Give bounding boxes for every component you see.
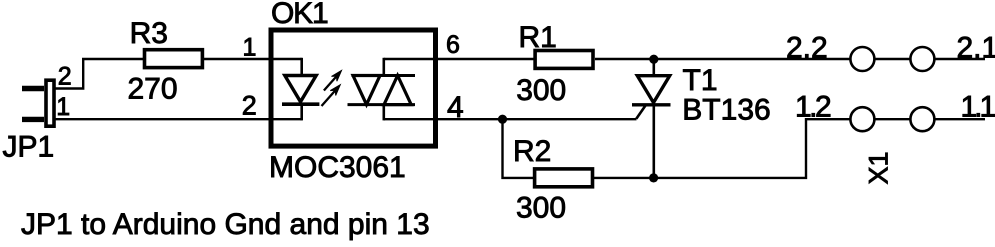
resistor R1 xyxy=(535,51,593,69)
wire OK1 pin4 to T1 gate xyxy=(384,118,637,120)
svg-text:1: 1 xyxy=(56,93,70,121)
svg-text:2.1: 2.1 xyxy=(957,31,995,64)
resistor R3 xyxy=(145,50,203,68)
triac T1 xyxy=(632,59,671,178)
wire between X1 pads 1.2 and 1.1 xyxy=(876,118,911,120)
junction dot T1 / R2 net xyxy=(649,173,658,182)
svg-text:270: 270 xyxy=(128,73,178,106)
svg-text:T1: T1 xyxy=(683,64,718,97)
photo-triac of OK1 xyxy=(348,58,416,121)
svg-text:JP1 to Arduino Gnd and pin 13: JP1 to Arduino Gnd and pin 13 xyxy=(21,208,430,241)
svg-text:R1: R1 xyxy=(519,21,557,54)
svg-text:BT136: BT136 xyxy=(682,94,770,127)
svg-text:OK1: OK1 xyxy=(271,0,328,30)
light emission arrows xyxy=(322,71,342,107)
wire junction to R2 xyxy=(503,119,537,178)
svg-text:1.1: 1.1 xyxy=(961,91,995,124)
optocoupler OK1 box xyxy=(271,30,436,146)
wire R3 to OK1 pin1 xyxy=(203,58,302,60)
junction dot T1 anode / top net xyxy=(649,55,658,64)
resistor R2 xyxy=(535,169,593,187)
svg-text:4: 4 xyxy=(447,91,464,124)
svg-text:JP1: JP1 xyxy=(3,130,55,163)
wire R1 to X1 pad 2.2 xyxy=(595,58,850,60)
wire right of X1 pad 1.1 xyxy=(935,118,985,120)
X1 pad 2.1 xyxy=(910,47,934,71)
optocoupler OK1 internals: LED xyxy=(282,58,319,121)
svg-text:1.2: 1.2 xyxy=(795,91,831,124)
wire JP1 pin1 to OK1 pin2 xyxy=(55,118,302,120)
svg-text:MOC3061: MOC3061 xyxy=(269,151,406,184)
junction dot OK1 pin4 / R2 xyxy=(498,115,507,124)
svg-text:R3: R3 xyxy=(130,17,168,50)
X1 pad 1.2 xyxy=(850,107,874,131)
svg-text:X1: X1 xyxy=(864,151,894,184)
svg-text:R2: R2 xyxy=(513,135,551,168)
svg-text:300: 300 xyxy=(516,192,566,225)
wire OK1 pin6 to R1 xyxy=(384,58,537,60)
svg-text:2: 2 xyxy=(58,62,72,90)
X1 pad 2.2 xyxy=(850,47,874,71)
svg-text:2.2: 2.2 xyxy=(786,31,828,64)
X1 pad 1.1 xyxy=(910,107,934,131)
wire right of X1 pad 2.1 xyxy=(935,58,985,60)
svg-text:6: 6 xyxy=(446,31,460,59)
connector JP1 xyxy=(22,80,54,126)
svg-text:300: 300 xyxy=(516,74,566,107)
svg-text:2: 2 xyxy=(242,91,257,121)
wire between X1 pads 2.2 and 2.1 xyxy=(876,58,911,60)
svg-text:1: 1 xyxy=(243,33,257,61)
wire R2 to X1 pad 1.2 xyxy=(593,119,849,178)
wire JP1 pin2 jog to R3 xyxy=(55,59,144,89)
